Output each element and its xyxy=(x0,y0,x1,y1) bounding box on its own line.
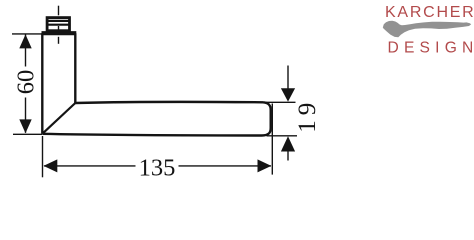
post left edge xyxy=(41,33,43,134)
dim 19 extension line top xyxy=(266,101,296,103)
svg-text:60: 60 xyxy=(13,70,40,95)
svg-text:19: 19 xyxy=(294,98,321,133)
centerline xyxy=(58,6,60,44)
dim 60 arrow down xyxy=(19,119,31,133)
lever bottom edge xyxy=(42,134,262,136)
dim 60 dimension line xyxy=(25,35,27,133)
shoulder xyxy=(42,31,77,35)
dim 135 dimension line xyxy=(44,165,271,167)
spindle cap xyxy=(47,18,69,31)
dim 135 extension line left xyxy=(42,136,44,177)
dim 19 dimension line xyxy=(287,66,289,161)
logo swoosh xyxy=(383,21,471,38)
dim 60 arrow up xyxy=(19,34,31,48)
dim 135 extension line right xyxy=(271,104,273,175)
cap thread line 2 xyxy=(47,24,71,26)
cap thread line 1 xyxy=(47,20,71,22)
dim 135 arrow left xyxy=(44,159,58,172)
dim 60 extension line bottom xyxy=(13,133,42,135)
dim 19 arrow up xyxy=(281,136,295,151)
corner diagonal xyxy=(42,103,75,134)
dim 19 arrow down xyxy=(281,88,295,101)
lever end cap xyxy=(262,102,271,135)
post right edge xyxy=(74,33,76,103)
dim 19 extension line bottom xyxy=(267,135,298,137)
svg-text:DESIGN: DESIGN xyxy=(388,39,474,56)
dim 135 arrow right xyxy=(258,159,272,172)
svg-text:135: 135 xyxy=(139,154,176,181)
dim 60 extension line top xyxy=(12,33,42,35)
svg-text:KARCHER: KARCHER xyxy=(385,4,474,21)
lever top edge xyxy=(75,102,263,103)
